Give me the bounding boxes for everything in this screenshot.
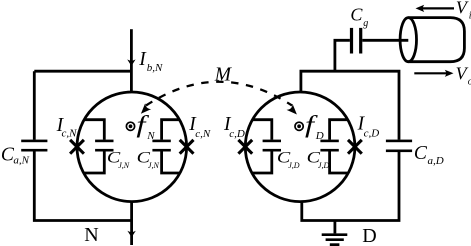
svg-text:c,D: c,D <box>229 128 245 140</box>
svg-text:M: M <box>214 65 233 86</box>
svg-text:c,D: c,D <box>364 127 380 139</box>
svg-text:C: C <box>414 143 428 164</box>
svg-text:b,N: b,N <box>147 62 163 74</box>
svg-text:N: N <box>146 130 155 142</box>
svg-text:a,N: a,N <box>13 155 29 167</box>
svg-text:J,D: J,D <box>318 161 330 170</box>
svg-text:c,N: c,N <box>195 128 211 140</box>
svg-text:J,D: J,D <box>288 161 300 170</box>
svg-text:D: D <box>315 130 324 142</box>
svg-text:J,N: J,N <box>118 161 130 170</box>
svg-text:N: N <box>84 224 98 246</box>
svg-text:J,N: J,N <box>148 161 160 170</box>
svg-text:C: C <box>350 4 363 24</box>
svg-text:D: D <box>362 225 376 246</box>
svg-text:c,N: c,N <box>62 128 78 140</box>
svg-text:g: g <box>363 18 368 29</box>
svg-text:a,D: a,D <box>428 155 444 167</box>
